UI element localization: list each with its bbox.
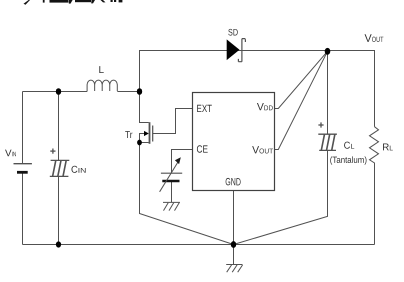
svg-text:Tr: Tr [125, 130, 133, 141]
svg-text:C: C [71, 165, 78, 176]
svg-text:R: R [382, 142, 389, 153]
svg-text:SD: SD [228, 28, 238, 39]
svg-text:OUT: OUT [259, 148, 274, 155]
svg-text:V: V [252, 144, 259, 156]
svg-text:IN: IN [12, 151, 17, 158]
svg-text:CE: CE [196, 144, 208, 156]
svg-text:(Tantalum): (Tantalum) [330, 155, 367, 165]
svg-text:L: L [99, 65, 105, 76]
svg-text:L: L [350, 144, 354, 151]
svg-text:C: C [344, 141, 351, 152]
svg-text:V: V [257, 101, 264, 113]
svg-text:IN: IN [78, 168, 87, 175]
svg-text:EXT: EXT [197, 103, 213, 115]
svg-text:GND: GND [225, 176, 241, 188]
svg-text:L: L [389, 145, 393, 152]
svg-text:DD: DD [264, 105, 273, 112]
svg-text:OUT: OUT [372, 35, 384, 44]
